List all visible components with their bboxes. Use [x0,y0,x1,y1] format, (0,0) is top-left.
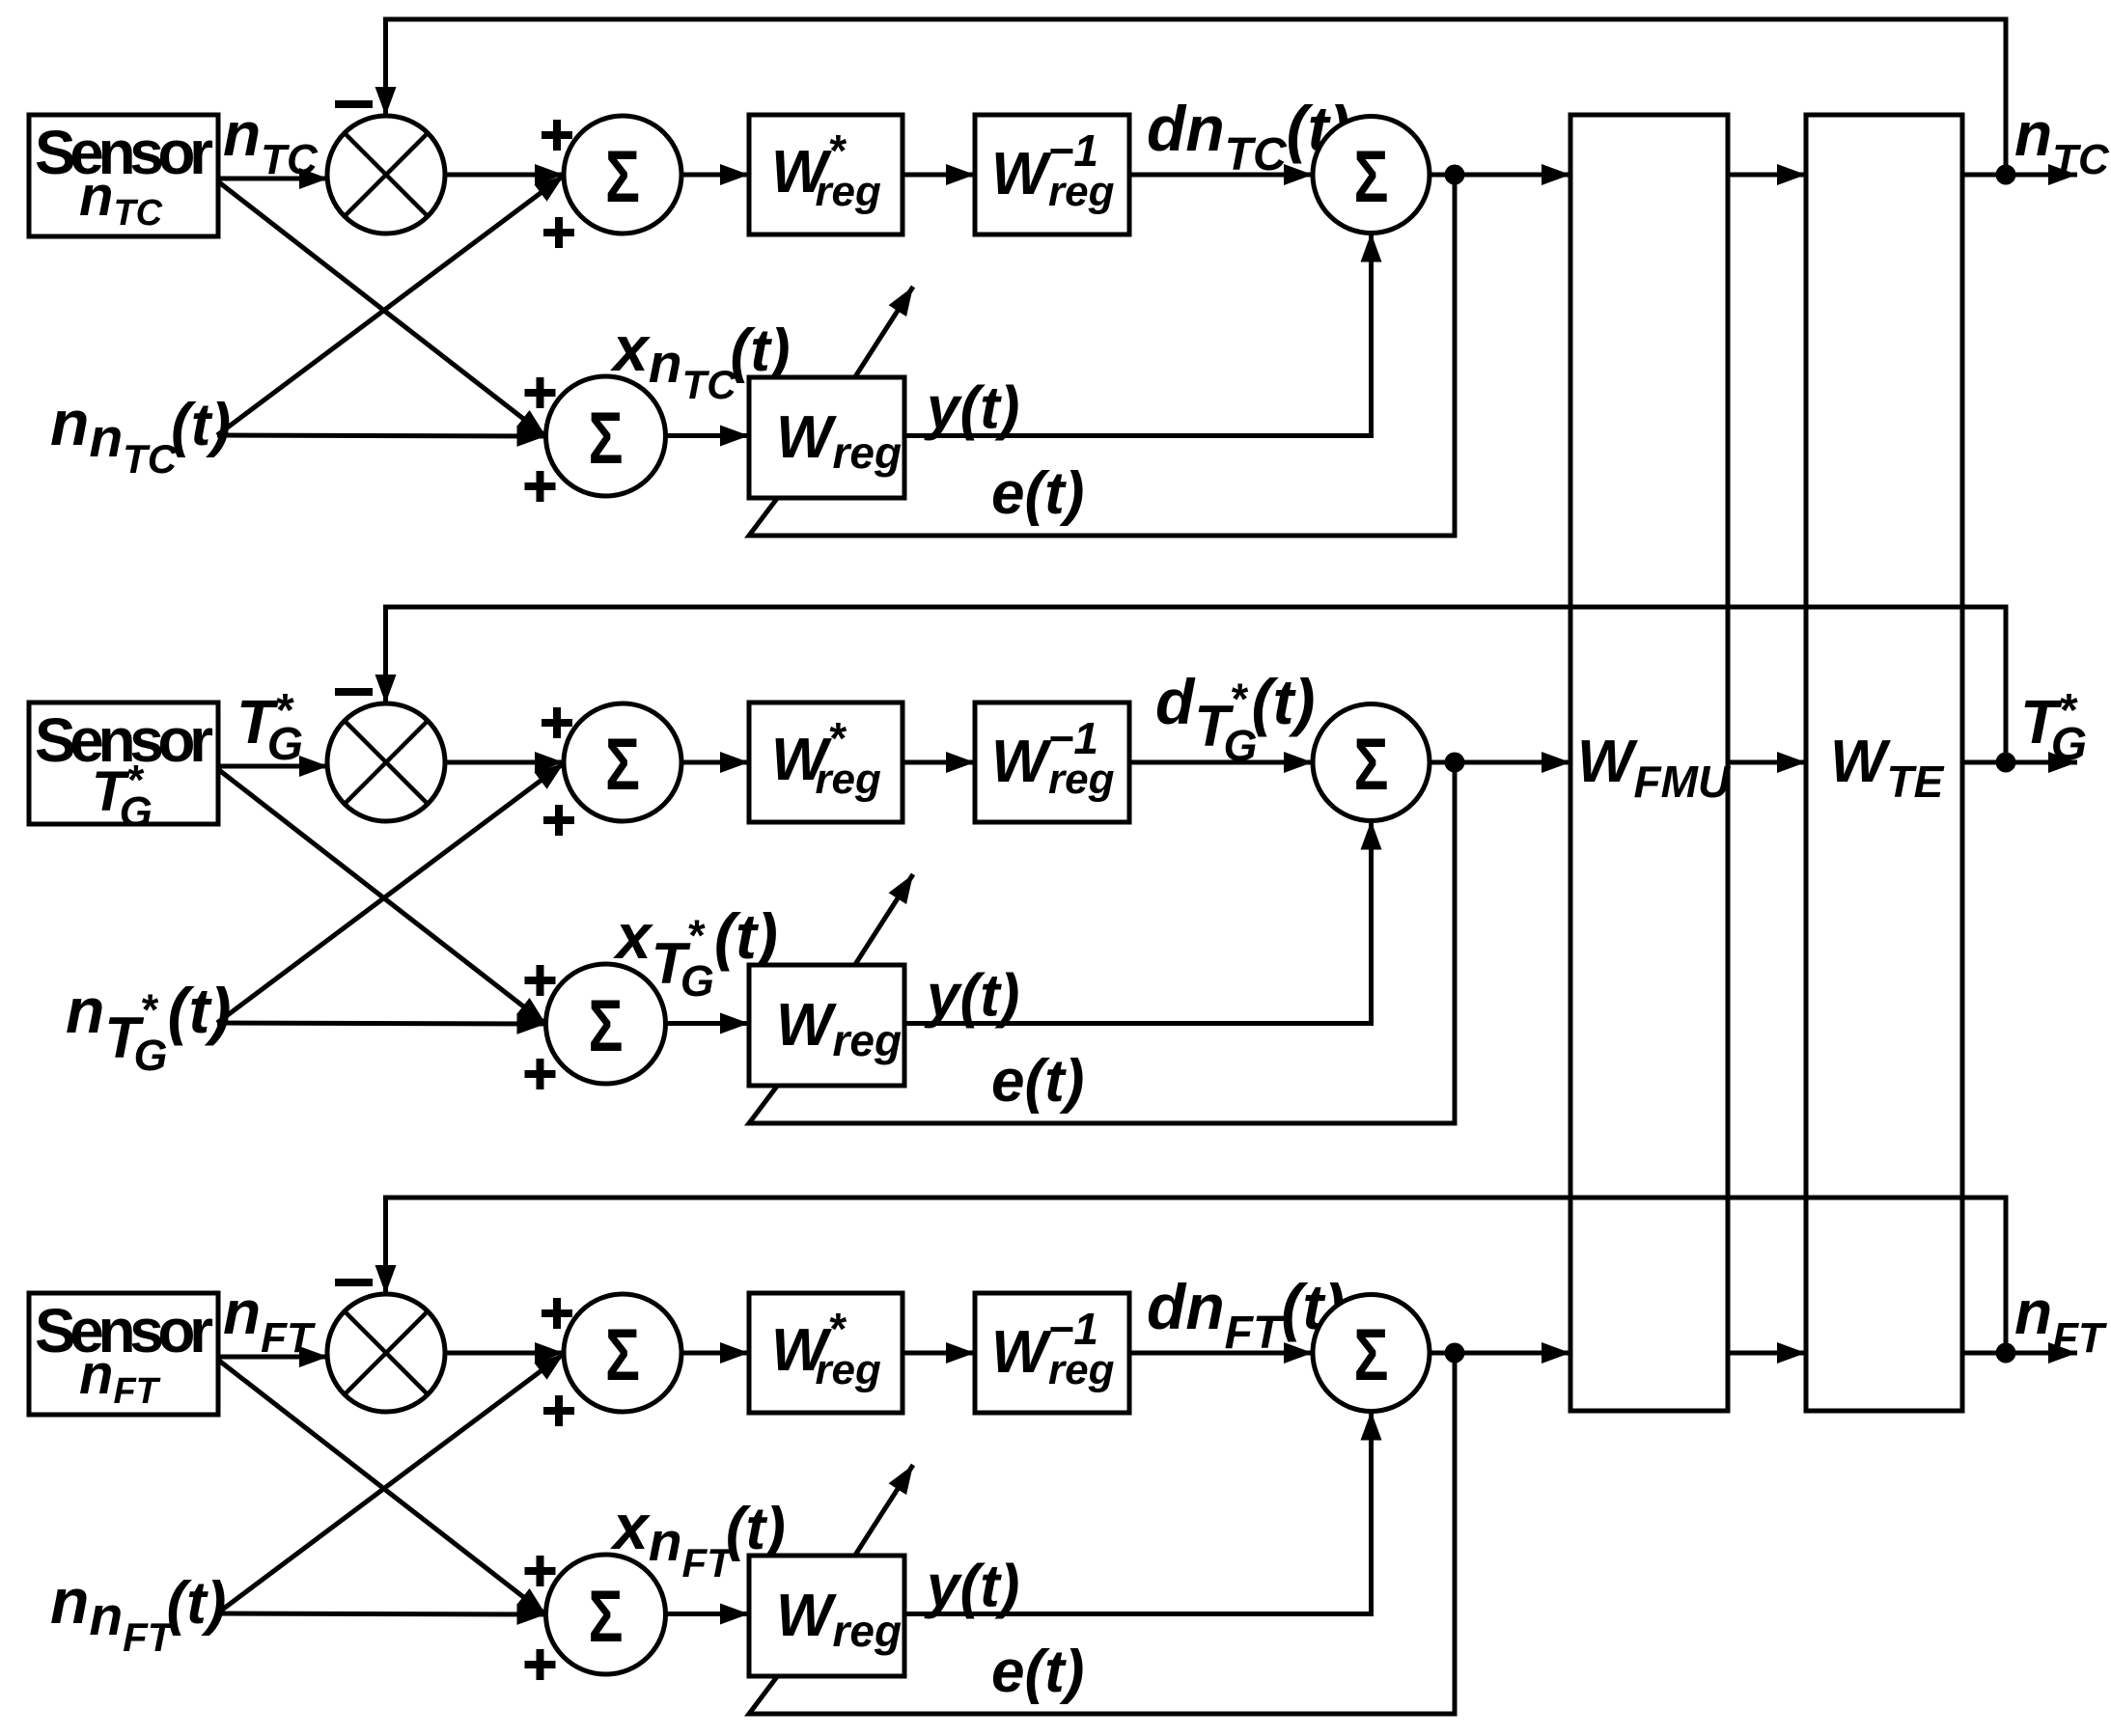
svg-text:Σ: Σ [1354,136,1389,218]
output summer row3 [1313,1295,1430,1412]
summer1 (upper) row2 [564,703,681,821]
lower summer (regressor) row2 [546,964,666,1084]
svg-text:e(t): e(t) [991,460,1084,527]
plus signs summer1 row1 [542,120,572,151]
wire Wreg^-1 to output summer row1 [1129,173,1313,178]
wire e(t) error feedback row1 [749,175,1455,536]
wire noise to lower summer row2 [217,1023,546,1024]
block Wreg* row3 [749,1293,903,1413]
svg-text:Sensor: Sensor [35,1296,213,1365]
output summer row1 [1313,117,1430,234]
wire y(t) to output summer row2 [904,821,1372,1024]
sensor box row3 [29,1293,218,1415]
minus sign row2 [335,688,373,696]
wire lower summer to Wreg row2 [666,1021,749,1026]
block Wreg^-1 row3 [975,1293,1129,1413]
wire multiplier to summer1 row3 [445,1351,564,1356]
svg-text:e(t): e(t) [991,1639,1084,1705]
block Wreg (adaptive) row3 [749,1556,904,1676]
junction dot (feedback tap) row3 [1996,1343,2016,1364]
plus signs lower summer row3 [525,1556,556,1586]
wire multiplier to summer1 row1 [445,173,564,178]
svg-text:y(t): y(t) [924,963,1019,1030]
wire W_TE to output row1 [1962,173,2077,178]
wire W_TE to output row3 [1962,1351,2077,1356]
svg-text:Σ: Σ [589,398,624,480]
svg-text:Sensor: Sensor [35,118,213,187]
svg-text:Σ: Σ [1354,1314,1389,1396]
output summer row2 [1313,704,1430,821]
wire e(t) error feedback row3 [749,1353,1455,1714]
summer1 (upper) row1 [564,116,681,234]
block W_TE [1806,115,1962,1411]
junction dot (error tap) row3 [1445,1343,1465,1364]
junction dot (feedback tap) row2 [1996,753,2016,773]
svg-text:Σ: Σ [605,724,640,806]
adaptation arrow row2 [854,874,913,966]
wire multiplier to summer1 row2 [445,760,564,765]
wire W_FMU to W_TE row1 [1728,173,1806,178]
adaptation arrow row1 [854,287,913,378]
sensor box row1 [29,115,218,236]
wire noise to summer1 (diagonal) row3 [217,1354,564,1613]
plus signs summer1 row2 [542,707,572,738]
wire noise to summer1 (diagonal) row2 [217,763,564,1023]
svg-text:Σ: Σ [605,136,640,218]
multiplier (feedback mixer) row3 [327,1294,445,1412]
wire sensor to lower summer (diagonal) row2 [219,770,546,1024]
wire sensor to lower summer (diagonal) row1 [219,182,546,436]
svg-text:e(t): e(t) [991,1048,1084,1115]
wire noise to summer1 (diagonal) row1 [217,176,564,435]
svg-text:Σ: Σ [1354,724,1389,806]
minus sign row1 [335,100,373,108]
block Wreg (adaptive) row2 [749,965,904,1086]
wire Wreg^-1 to output summer row3 [1129,1351,1313,1356]
wire Wreg* to Wreg^-1 row1 [903,173,975,178]
svg-text:y(t): y(t) [924,375,1019,442]
svg-text:Σ: Σ [589,1576,624,1658]
wire sensor to multiplier row1 [218,177,328,181]
block Wreg* row2 [749,703,903,822]
svg-text:Σ: Σ [589,985,624,1067]
plus signs lower summer row1 [525,377,556,408]
wire W_FMU to W_TE row2 [1728,760,1806,765]
junction dot (error tap) row2 [1445,753,1465,773]
minus sign row3 [335,1279,373,1286]
block Wreg^-1 row1 [975,115,1129,234]
junction dot (feedback tap) row1 [1996,165,2016,185]
multiplier (feedback mixer) row1 [327,116,445,234]
wire feedback row2 [386,607,2007,762]
wire feedback row1 [386,19,2007,175]
wire noise to lower summer row1 [217,435,546,436]
wire sensor to lower summer (diagonal) row3 [219,1361,546,1614]
wire e(t) error feedback row2 [749,762,1455,1123]
lower summer (regressor) row1 [546,376,666,496]
wire output summer to W_FMU row3 [1430,1351,1570,1356]
block Wreg (adaptive) row1 [749,377,904,498]
wire sensor to multiplier row3 [218,1355,328,1360]
wire Wreg* to Wreg^-1 row3 [903,1351,975,1356]
wire y(t) to output summer row1 [904,234,1372,436]
adaptation arrow row3 [854,1465,913,1557]
wire feedback row3 [386,1198,2007,1353]
block Wreg* row1 [749,115,903,234]
wire y(t) to output summer row3 [904,1412,1372,1614]
svg-text:y(t): y(t) [924,1554,1019,1620]
wire sensor to multiplier row2 [218,764,328,769]
block W_FMU [1570,115,1732,1411]
multiplier (feedback mixer) row2 [327,703,445,821]
lower summer (regressor) row3 [546,1555,666,1674]
wire lower summer to Wreg row1 [666,433,749,438]
plus signs summer1 row3 [542,1298,572,1329]
wire summer1 to Wreg* row1 [681,173,749,178]
summer1 (upper) row3 [564,1294,681,1412]
wire output summer to W_FMU row2 [1430,760,1570,765]
wire W_FMU to W_TE row3 [1728,1351,1806,1356]
svg-text:Σ: Σ [605,1314,640,1396]
wire lower summer to Wreg row3 [666,1612,749,1616]
wire noise to lower summer row3 [217,1613,546,1614]
sensor box row2 [29,703,218,824]
junction dot (error tap) row1 [1445,165,1465,185]
wire output summer to W_FMU row1 [1430,173,1570,178]
wire summer1 to Wreg* row3 [681,1351,749,1356]
wire W_TE to output row2 [1962,760,2077,765]
block Wreg^-1 row2 [975,703,1129,822]
wire Wreg* to Wreg^-1 row2 [903,760,975,765]
plus signs lower summer row2 [525,965,556,996]
wire summer1 to Wreg* row2 [681,760,749,765]
wire Wreg^-1 to output summer row2 [1129,760,1313,765]
